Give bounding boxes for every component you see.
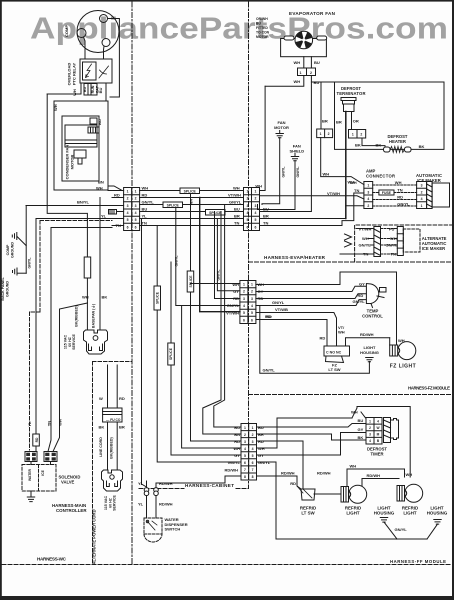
svg-text:2: 2 [328, 132, 330, 136]
refrid light bulb1 socket [341, 487, 349, 503]
wire RD/WH row8 entry [225, 475, 241, 477]
svg-text:WH: WH [348, 180, 355, 185]
svg-text:BU: BU [83, 87, 87, 93]
svg-text:4: 4 [252, 447, 254, 451]
evaporator fan shroud [281, 39, 327, 57]
water dispenser switch dashed box [144, 518, 162, 534]
svg-text:3: 3 [244, 440, 246, 444]
svg-text:GN/YL: GN/YL [258, 460, 271, 465]
svg-text:WH: WH [294, 79, 301, 84]
svg-text:3: 3 [367, 190, 369, 194]
svg-text:8: 8 [252, 475, 254, 479]
wire RD into row2 [112, 197, 124, 199]
solenoid connector block ice [44, 452, 57, 462]
wire BR terminator down (thick) [345, 112, 347, 219]
svg-text:GN/YL: GN/YL [228, 460, 241, 465]
wire WH to alt connector [368, 238, 374, 240]
svg-text:1: 1 [244, 426, 246, 430]
alt cord wires top [107, 365, 109, 408]
svg-text:GY: GY [234, 453, 240, 458]
svg-text:2: 2 [369, 426, 371, 430]
diag wire to ground2 [427, 524, 438, 539]
wire WH splice1 down [191, 194, 242, 441]
svg-text:1: 1 [369, 419, 371, 423]
page border bottom [0, 596, 454, 600]
wire P2 row5 VT/WH to switch NO [256, 313, 337, 347]
svg-text:1: 1 [300, 71, 302, 75]
svg-text:GN/YL: GN/YL [28, 257, 32, 269]
wire bulb1 top loop WH [347, 469, 405, 487]
stems into valve box [30, 462, 32, 465]
svg-text:5: 5 [252, 454, 254, 458]
power plug 115VAC [84, 330, 108, 354]
svg-text:5: 5 [251, 311, 253, 315]
wire BR to AMP pin2 [346, 205, 364, 207]
svg-text:8: 8 [244, 475, 246, 479]
svg-text:6: 6 [135, 225, 137, 229]
connector P1 right block [244, 188, 260, 231]
wire P2 row6 RD to switch C [256, 320, 327, 347]
svg-text:RD/WH: RD/WH [360, 332, 374, 337]
comp ground symbol (sideways) [12, 233, 16, 240]
svg-text:2: 2 [135, 197, 137, 201]
switch blade [147, 521, 157, 530]
svg-text:1: 1 [135, 190, 137, 194]
svg-text:FUSE: FUSE [382, 191, 392, 195]
svg-text:GN/YL: GN/YL [386, 243, 399, 248]
P2 left labels [226, 282, 239, 316]
ice maker connector block [417, 182, 427, 209]
wire WH below connector [265, 76, 304, 87]
svg-text:SERVICE: SERVICE [72, 334, 76, 350]
svg-text:HARNESS-FZ MODULE: HARNESS-FZ MODULE [408, 386, 450, 391]
svg-text:VT/WH: VT/WH [327, 191, 340, 196]
svg-text:MOTOR: MOTOR [70, 154, 75, 169]
connector P2 left block [240, 281, 256, 324]
svg-text:2: 2 [127, 197, 129, 201]
evap fan blades [295, 31, 313, 49]
dashed wires AMP to ice maker [373, 185, 417, 206]
svg-text:1: 1 [127, 190, 129, 194]
timer hatched connector [384, 418, 391, 443]
wire WH down left side [47, 94, 87, 257]
wire bundle vertical x181.6 [182, 306, 241, 449]
connector 1-2 right (terminator) [349, 130, 366, 139]
pins P2 [243, 283, 253, 323]
page border right [452, 0, 454, 600]
svg-text:ALTERNATE POWER CORD: ALTERNATE POWER CORD [92, 509, 97, 564]
svg-text:TIMER: TIMER [370, 452, 383, 457]
P3 left labels [224, 425, 240, 473]
svg-text:YL: YL [101, 214, 107, 219]
wire YL bundle vertical [140, 219, 142, 482]
svg-text:— FU CO: — FU CO [106, 418, 121, 422]
svg-text:GN/YL: GN/YL [272, 300, 285, 305]
wire bulb1 to bulb2 RD/WH [362, 478, 399, 480]
wire BR drop to terminator connector [320, 82, 322, 129]
compressor terminal R [102, 39, 110, 47]
svg-text:RD: RD [258, 296, 264, 301]
wire fan shield ground GN/YL [258, 161, 296, 210]
svg-text:GN/YL: GN/YL [359, 243, 372, 248]
wire WH vertical to row1 [260, 86, 266, 190]
svg-text:CONNECTOR: CONNECTOR [366, 174, 395, 179]
wire TN bundle vertical [140, 226, 158, 287]
wire GN/YL return row6 [257, 462, 428, 539]
svg-text:5: 5 [255, 218, 257, 222]
svg-text:2: 2 [251, 290, 253, 294]
housing ground 2 [434, 520, 441, 525]
wire row5 YL [140, 218, 244, 220]
wire VT/WH to alt connector [356, 228, 374, 230]
svg-text:3: 3 [127, 204, 129, 208]
svg-text:3: 3 [243, 297, 245, 301]
svg-text:BU: BU [142, 207, 148, 212]
wire GN/YL to alt connector [370, 244, 374, 246]
svg-text:5: 5 [127, 218, 129, 222]
back panel ground symbol (sideways) [13, 268, 18, 275]
wire BU branch to defrost loop [311, 81, 334, 83]
relay lightning symbol [86, 64, 92, 78]
wires into bullets [146, 481, 148, 488]
run cap box [84, 84, 97, 96]
svg-text:VT/WB: VT/WB [275, 307, 288, 312]
svg-text:TN: TN [263, 221, 268, 226]
condenser fan outer box [54, 101, 108, 190]
wire BU fan down [310, 57, 312, 68]
svg-text:BU: BU [97, 119, 102, 125]
svg-text:GY: GY [359, 282, 365, 287]
svg-text:WH: WH [338, 330, 345, 335]
svg-text:1: 1 [421, 204, 423, 208]
svg-text:CONTROLLER: CONTROLLER [56, 508, 87, 513]
svg-text:4: 4 [244, 447, 246, 451]
svg-text:TN: TN [391, 252, 396, 257]
svg-text:3: 3 [135, 204, 137, 208]
wire M terminal right and down [108, 19, 120, 98]
svg-text:WH: WH [398, 338, 405, 343]
svg-text:BR: BR [336, 120, 342, 125]
svg-text:RD: RD [358, 293, 364, 298]
wire cond fan WH into row1 [108, 190, 124, 192]
FZ light housing ground [366, 358, 373, 362]
chevron wire arrows [345, 234, 352, 240]
splice on TN vertical [154, 286, 161, 310]
svg-text:LIGHT: LIGHT [403, 511, 416, 516]
timer pin digits [369, 419, 380, 443]
svg-text:BU: BU [234, 207, 240, 212]
svg-text:1: 1 [247, 190, 249, 194]
svg-text:GN/YL: GN/YL [263, 368, 276, 373]
FZ light bulb [398, 342, 416, 360]
svg-text:WH: WH [362, 236, 369, 241]
wire fan motor ground GN/YL [262, 138, 280, 205]
svg-text:FU: FU [389, 227, 394, 232]
wire GY down to P2 row2 [217, 219, 240, 291]
wire P2 row4 GN/YL to temp control [256, 300, 367, 306]
splice box row4 [206, 210, 226, 216]
svg-text:GN/YL: GN/YL [217, 269, 221, 281]
svg-text:SERVICE: SERVICE [113, 495, 117, 511]
svg-text:6: 6 [243, 318, 245, 322]
wire WH branch to P2 row1 [191, 283, 240, 285]
svg-text:BK: BK [376, 143, 382, 148]
alt plug [102, 470, 123, 491]
svg-text:TN: TN [142, 221, 147, 226]
wire WH row4 to loop [257, 418, 353, 448]
defrost heater element [384, 147, 391, 152]
svg-text:4: 4 [377, 419, 379, 423]
RD bullet box [33, 434, 40, 446]
wire bundle vertical x221 to P3 row2 [203, 212, 241, 435]
wire P2 row1 WH right [256, 272, 397, 345]
svg-text:VT/WH: VT/WH [228, 193, 241, 198]
relay inner box [83, 62, 97, 80]
svg-text:W: W [376, 426, 379, 430]
defrost terminator symbol [341, 98, 356, 101]
svg-text:C NO NC: C NO NC [326, 350, 342, 354]
pins P3 [244, 426, 254, 479]
defrost timer box [366, 418, 382, 445]
svg-text:GN/YL: GN/YL [397, 202, 410, 207]
svg-text:3: 3 [251, 297, 253, 301]
harness boundary dash vertical x132 [131, 2, 133, 564]
wire row1 WH [140, 190, 244, 192]
svg-text:4: 4 [135, 211, 137, 215]
connector 1-2 left (BR) [317, 129, 333, 138]
svg-text:HOUSING: HOUSING [374, 511, 395, 516]
pins P1 left [127, 190, 257, 230]
wire WH branch to solenoid [53, 303, 87, 452]
refrid light switch [301, 489, 315, 500]
svg-text:RD: RD [320, 336, 326, 341]
refrid light bulb2 [405, 484, 423, 502]
svg-text:LINE CORD: LINE CORD [99, 437, 103, 457]
svg-text:7: 7 [244, 468, 246, 472]
svg-text:FZ LIGHT: FZ LIGHT [390, 364, 416, 370]
harness-fz module boundary dashed y394.5 [249, 394, 453, 396]
alt dashed wires [381, 229, 398, 255]
svg-text:WH: WH [351, 410, 358, 415]
svg-text:6: 6 [127, 225, 129, 229]
refrid light bulb1 [349, 485, 367, 503]
wire BU below connector to row4 [260, 76, 312, 212]
svg-text:BR: BR [263, 214, 269, 219]
svg-text:5: 5 [243, 311, 245, 315]
FZ light socket [390, 345, 398, 356]
svg-text:SPLICE: SPLICE [169, 347, 173, 360]
svg-text:BK: BK [99, 425, 105, 430]
wire diag to comp ground [17, 237, 26, 246]
main-controller dashed boundary [40, 220, 112, 222]
fan motor ground symbol [276, 131, 283, 138]
bottom harness boundary dashed y564.5 [2, 564, 452, 566]
splice box row3 [163, 202, 183, 208]
svg-text:HARNESS-EVAP/HEATER: HARNESS-EVAP/HEATER [264, 255, 326, 260]
defrost heater loop box [335, 82, 445, 149]
svg-text:BK: BK [419, 144, 425, 149]
svg-text:WH: WH [390, 236, 397, 241]
refrid light bulb2 socket [397, 486, 405, 502]
svg-text:WH: WH [53, 104, 58, 111]
svg-text:RD/WH: RD/WH [317, 471, 331, 476]
svg-text:BR: BR [322, 119, 328, 124]
FZ light switch box C NO NC [324, 346, 350, 356]
row labels after left block [101, 186, 242, 228]
wire WH fan down [303, 57, 305, 68]
svg-text:HARNESS-FF MODULE: HARNESS-FF MODULE [390, 559, 446, 564]
wire GN/YL branch down to housing ground [260, 306, 370, 374]
svg-text:7: 7 [252, 468, 254, 472]
svg-text:SPLICE: SPLICE [184, 190, 197, 194]
svg-text:HOUSING: HOUSING [360, 350, 379, 355]
page border top [0, 0, 454, 2]
connector P3 8-pin block [241, 424, 257, 481]
svg-text:BU: BU [314, 60, 320, 65]
svg-text:4: 4 [421, 197, 423, 201]
wire BU relay to condenser box [105, 83, 107, 101]
svg-text:LT SW: LT SW [328, 367, 340, 372]
svg-text:RD: RD [35, 437, 39, 442]
svg-text:AppliancePartsPros.com: AppliancePartsPros.com [30, 12, 448, 46]
svg-text:VT/WH: VT/WH [226, 310, 239, 315]
svg-text:RD: RD [233, 296, 239, 301]
svg-text:4: 4 [369, 439, 371, 443]
wire ground drop [25, 206, 27, 274]
wire GY row5 to timer GT [257, 433, 367, 456]
svg-text:HARNESS-WC: HARNESS-WC [37, 557, 67, 562]
wire BN/YL horizontal to connector [26, 205, 124, 207]
ice maker hatched connector [427, 182, 433, 209]
harness boundary dash vertical x248.5 [248, 2, 250, 488]
svg-text:2: 2 [243, 290, 245, 294]
svg-text:TN: TN [47, 421, 52, 426]
svg-text:WH: WH [406, 472, 413, 477]
compressor terminal M [100, 15, 108, 23]
svg-text:GN/YL: GN/YL [175, 255, 179, 267]
wire TN row6 entry [112, 225, 124, 227]
solenoid valve dashed box [22, 465, 56, 492]
svg-text:YL: YL [138, 502, 144, 507]
svg-text:GY: GY [258, 289, 264, 294]
splice on WH vertical [187, 271, 194, 292]
fuse box on dashed wire [379, 190, 394, 195]
wire VT/WH row2 down thick [200, 198, 240, 312]
wire GN/YL splice3 down [176, 208, 240, 306]
svg-text:4: 4 [251, 304, 253, 308]
svg-text:5: 5 [244, 454, 246, 458]
svg-text:HOUSING: HOUSING [427, 511, 448, 516]
svg-text:5: 5 [135, 218, 137, 222]
svg-text:1: 1 [243, 283, 245, 287]
svg-text:RD: RD [119, 396, 125, 401]
svg-text:WH: WH [255, 184, 262, 189]
svg-text:HARNESS-CABINET: HARNESS-CABINET [185, 483, 234, 488]
svg-text:WH: WH [142, 186, 149, 191]
svg-text:2: 2 [244, 433, 246, 437]
svg-text:BR: BR [119, 425, 125, 430]
wire switch to bulb1 [314, 493, 341, 495]
wire S terminal to relay [84, 37, 86, 59]
wire OR terminator to connector [351, 112, 353, 130]
svg-text:ICE MAKER: ICE MAKER [422, 246, 446, 251]
svg-text:4: 4 [127, 211, 129, 215]
svg-text:OR/WH: OR/WH [256, 17, 268, 21]
harness-evap/heater boundary dashed y262 [249, 261, 453, 263]
svg-text:3: 3 [421, 184, 423, 188]
svg-text:M: M [377, 433, 380, 437]
svg-text:1: 1 [352, 133, 354, 137]
svg-text:GN/YL: GN/YL [296, 166, 300, 178]
wire VT/WH row2 to AMP pin4 [260, 196, 364, 199]
svg-text:RD: RD [114, 193, 120, 198]
wire relay to run cap / left WH wire [47, 83, 81, 94]
svg-text:SPLICE: SPLICE [156, 291, 160, 304]
splice2 box [168, 343, 175, 365]
svg-text:SPLICE: SPLICE [167, 204, 180, 208]
svg-text:HEATER: HEATER [389, 139, 406, 144]
svg-text:GY: GY [358, 427, 364, 432]
wire RD row3 down to refrid lt sw [257, 441, 304, 488]
svg-text:3: 3 [255, 204, 257, 208]
svg-text:BU: BU [234, 425, 240, 430]
timer plug [391, 419, 399, 440]
svg-text:6: 6 [255, 225, 257, 229]
svg-text:3: 3 [247, 204, 249, 208]
svg-text:TN: TN [354, 188, 359, 193]
svg-text:WH: WH [350, 464, 357, 469]
splice WH (vertical box) [84, 257, 91, 278]
svg-text:BASEPAN (⏚): BASEPAN (⏚) [91, 303, 96, 328]
svg-text:WH: WH [72, 89, 77, 96]
svg-text:4: 4 [243, 304, 245, 308]
solenoid connector block water [25, 452, 37, 462]
P2 right labels [258, 282, 288, 319]
svg-text:2: 2 [255, 197, 257, 201]
svg-text:6: 6 [251, 318, 253, 322]
wire P2 row2 GY to temp control [256, 286, 367, 291]
svg-text:1: 1 [251, 283, 253, 287]
svg-text:GROUND: GROUND [6, 281, 10, 297]
svg-text:GY: GY [233, 289, 239, 294]
svg-text:1: 1 [252, 426, 254, 430]
svg-text:RD/WH: RD/WH [159, 502, 173, 507]
svg-text:BU: BU [314, 80, 320, 85]
wire row3 GN/YL [140, 204, 244, 206]
wire row6 TN [140, 225, 244, 227]
svg-text:COMP: COMP [6, 244, 10, 255]
temp control symbol [366, 284, 378, 304]
wire RD/WH switch NC to socket [346, 338, 390, 346]
svg-text:VALVE: VALVE [61, 480, 75, 485]
svg-text:SPLICE: SPLICE [189, 275, 193, 288]
svg-text:PTC RELAY: PTC RELAY [72, 63, 77, 86]
svg-text:2: 2 [367, 204, 369, 208]
svg-text:RD: RD [142, 193, 148, 198]
svg-text:SPLICE: SPLICE [209, 211, 222, 215]
svg-text:TN: TN [363, 252, 368, 257]
svg-text:BU: BU [358, 418, 364, 423]
evap fan connector 1-2 [298, 68, 316, 76]
note text block left of fan [256, 17, 270, 39]
wire R terminal to relay [103, 46, 106, 59]
svg-text:RD/WH: RD/WH [224, 468, 238, 473]
svg-text:RUN: RUN [91, 85, 95, 93]
svg-text:WH: WH [233, 446, 240, 451]
wire YL left column [36, 219, 100, 435]
overload / PTC relay box [80, 59, 112, 83]
svg-text:WH: WH [82, 295, 89, 300]
